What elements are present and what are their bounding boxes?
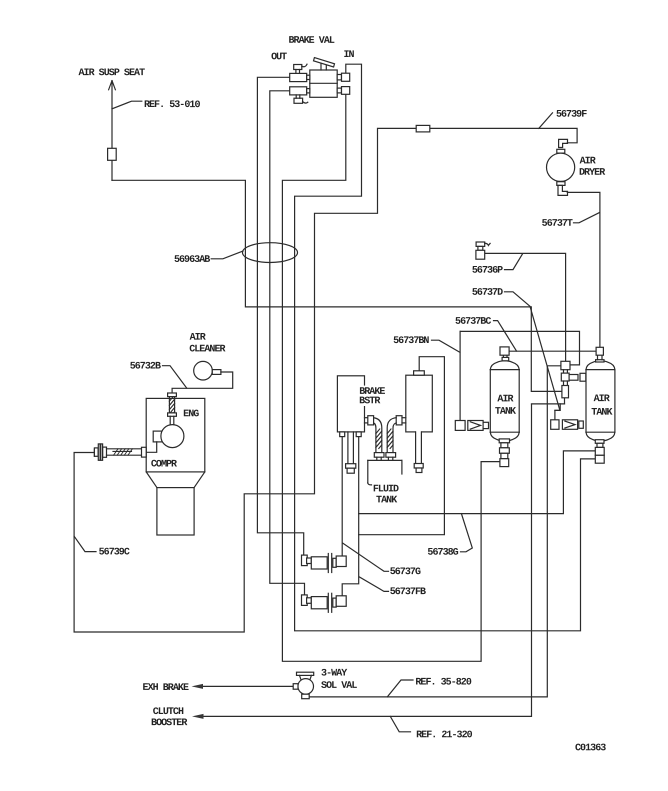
svg-text:BOOSTER: BOOSTER [151, 718, 187, 729]
svg-text:56739C: 56739C [99, 547, 130, 558]
svg-text:56737T: 56737T [542, 219, 573, 230]
svg-text:IN: IN [343, 50, 354, 61]
svg-text:56737BN: 56737BN [393, 336, 429, 347]
svg-text:56737D: 56737D [472, 288, 503, 299]
svg-text:AIR: AIR [497, 394, 513, 405]
svg-text:56963AB: 56963AB [174, 255, 210, 266]
svg-text:BRAKE VAL: BRAKE VAL [288, 36, 334, 47]
svg-text:TANK: TANK [495, 407, 516, 418]
svg-text:56736P: 56736P [472, 266, 503, 277]
svg-text:TANK: TANK [591, 408, 612, 419]
svg-text:EXH BRAKE: EXH BRAKE [143, 683, 189, 694]
svg-text:AIR SUSP SEAT: AIR SUSP SEAT [78, 68, 145, 79]
svg-text:56737FB: 56737FB [390, 587, 426, 598]
svg-text:FLUID: FLUID [373, 484, 399, 495]
svg-text:CLEANER: CLEANER [189, 344, 225, 355]
svg-text:56737BC: 56737BC [455, 317, 491, 328]
svg-text:REF. 21-320: REF. 21-320 [416, 730, 473, 741]
svg-text:56739F: 56739F [556, 110, 587, 121]
svg-text:ENG: ENG [183, 409, 199, 420]
svg-text:56738G: 56738G [427, 548, 458, 559]
svg-text:CLUTCH: CLUTCH [153, 707, 184, 718]
svg-text:REF. 53-010: REF. 53-010 [144, 100, 201, 111]
svg-text:TANK: TANK [376, 495, 397, 506]
svg-text:COMPR: COMPR [151, 459, 177, 470]
svg-text:OUT: OUT [271, 52, 287, 63]
svg-text:BSTR: BSTR [359, 396, 380, 407]
svg-text:AIR: AIR [594, 394, 610, 405]
svg-text:3-WAY: 3-WAY [321, 669, 347, 680]
svg-text:AIR: AIR [580, 156, 596, 167]
svg-text:56732B: 56732B [130, 362, 161, 373]
svg-text:SOL VAL: SOL VAL [321, 681, 357, 692]
svg-text:DRYER: DRYER [579, 168, 605, 179]
svg-text:56737G: 56737G [390, 567, 421, 578]
svg-text:REF. 35-820: REF. 35-820 [415, 677, 472, 688]
svg-text:C01363: C01363 [575, 743, 606, 754]
svg-text:AIR: AIR [190, 333, 206, 344]
